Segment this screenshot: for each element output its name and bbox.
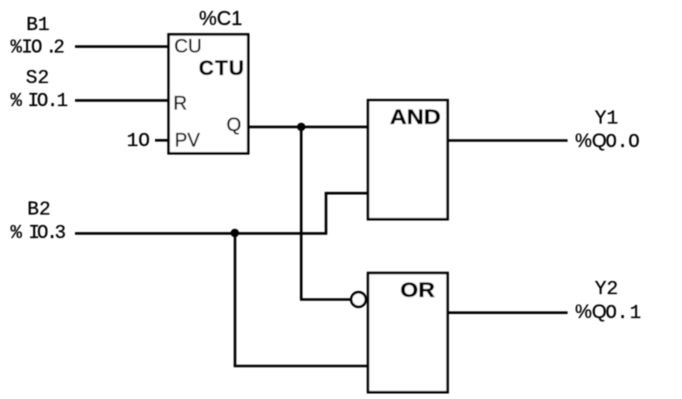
svg-text:%IO.1: %IO.1 [11, 90, 69, 112]
svg-text:R: R [173, 94, 187, 115]
svg-text:CU: CU [174, 37, 201, 58]
svg-text:B2: B2 [27, 198, 50, 220]
svg-text:Y1: Y1 [595, 108, 618, 130]
svg-text:%IO.2: %IO.2 [11, 36, 65, 58]
svg-text:S2: S2 [26, 67, 49, 89]
svg-text:PV: PV [175, 131, 201, 152]
svg-text:Q: Q [227, 115, 242, 136]
svg-text:%QO.O: %QO.O [575, 131, 640, 153]
svg-text:%QO.1: %QO.1 [575, 302, 641, 324]
svg-text:%C1: %C1 [199, 8, 242, 30]
svg-text:Y2: Y2 [595, 278, 618, 300]
svg-text:CTU: CTU [199, 57, 245, 80]
svg-text:%IO.3: %IO.3 [11, 222, 67, 244]
svg-text:OR: OR [400, 278, 435, 302]
svg-text:B1: B1 [26, 14, 49, 36]
svg-text:AND: AND [390, 105, 441, 128]
svg-text:1O: 1O [127, 130, 150, 152]
